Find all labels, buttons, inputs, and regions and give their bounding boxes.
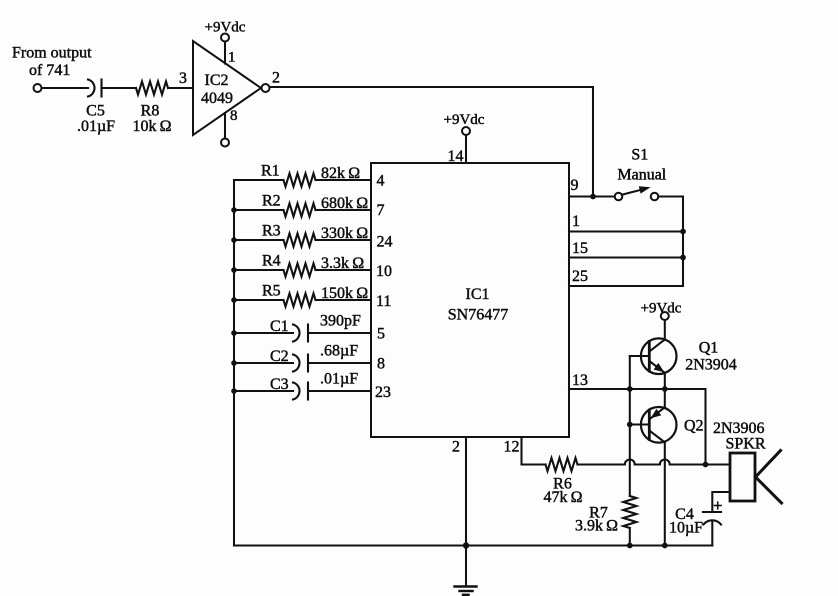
node: Q2 base <box>627 422 633 428</box>
capacitor C4 10uF <box>669 502 721 536</box>
svg-text:23: 23 <box>375 384 391 401</box>
resistor R3 330k to pin 24 <box>234 223 393 251</box>
transistor Q1 2N3904 <box>630 320 737 389</box>
svg-text:15: 15 <box>572 240 588 257</box>
svg-text:of 741: of 741 <box>29 62 70 79</box>
svg-text:10k Ω: 10k Ω <box>132 118 171 135</box>
left bus wire <box>233 180 235 546</box>
svg-text:R1: R1 <box>261 163 280 180</box>
IC1 pin 13 wire <box>569 372 706 465</box>
svg-text:25: 25 <box>572 268 588 285</box>
svg-text:+9Vdc: +9Vdc <box>444 112 485 128</box>
svg-text:150k Ω: 150k Ω <box>321 285 368 302</box>
svg-text:3: 3 <box>179 70 187 87</box>
node: bus-pin1 <box>680 229 686 235</box>
node: IC2 out joins pin 9 <box>590 194 596 200</box>
resistor R7 3.9k <box>575 496 636 546</box>
svg-text:.68µF: .68µF <box>320 343 358 360</box>
svg-text:R2: R2 <box>262 193 281 210</box>
node: bus-pin15 <box>680 255 686 261</box>
wire C4 to bottom rail <box>711 522 713 546</box>
svg-text:13: 13 <box>572 372 588 389</box>
svg-text:11: 11 <box>376 293 391 310</box>
svg-text:2: 2 <box>272 70 280 87</box>
resistor R2 680k to pin 7 <box>234 193 385 220</box>
IC2 pin 8 terminal <box>221 108 238 147</box>
svg-text:R3: R3 <box>262 223 281 240</box>
svg-text:4: 4 <box>377 173 385 190</box>
transistor Q2 2N3906 <box>630 389 765 546</box>
svg-text:330k Ω: 330k Ω <box>321 225 368 242</box>
svg-text:.01µF: .01µF <box>320 371 358 388</box>
svg-text:3.9k Ω: 3.9k Ω <box>575 518 618 535</box>
IC2 pin 1 to +9Vdc <box>225 42 236 66</box>
svg-text:C5: C5 <box>86 103 105 120</box>
svg-text:C2: C2 <box>270 348 289 365</box>
node: bus-C2 <box>231 360 237 366</box>
svg-text:R8: R8 <box>141 103 160 120</box>
IC1 pin 25 wire <box>569 268 683 286</box>
svg-text:14: 14 <box>448 148 464 165</box>
wire speaker lower terminal to C4 <box>712 492 730 512</box>
capacitor C3 .01uF to pin 23 <box>234 371 391 402</box>
svg-text:1: 1 <box>572 213 580 230</box>
svg-text:2N3904: 2N3904 <box>685 357 737 374</box>
bottom rail <box>234 544 712 546</box>
resistor R5 150k to pin 11 <box>234 283 391 311</box>
svg-text:3.3k Ω: 3.3k Ω <box>321 255 364 272</box>
svg-text:R5: R5 <box>262 283 281 300</box>
svg-text:82k Ω: 82k Ω <box>321 165 360 182</box>
svg-text:4049: 4049 <box>201 90 233 107</box>
ground <box>455 587 477 595</box>
svg-text:C1: C1 <box>270 318 289 335</box>
IC1 pin 9 wire <box>569 177 615 197</box>
wire S1 to right bus <box>658 197 683 287</box>
svg-text:IC1: IC1 <box>466 286 490 303</box>
svg-text:24: 24 <box>377 234 393 251</box>
svg-text:8: 8 <box>377 356 385 373</box>
svg-text:2N3906: 2N3906 <box>713 420 765 437</box>
IC1 pin 14 to +9Vdc <box>444 112 485 165</box>
capacitor C5 .01uF <box>77 80 115 136</box>
svg-text:8: 8 <box>230 108 238 124</box>
svg-text:12: 12 <box>504 439 520 456</box>
+9Vdc terminal (Q1) <box>641 301 682 321</box>
svg-text:7: 7 <box>377 202 385 219</box>
node: bus-R2 <box>231 207 237 213</box>
svg-text:S1: S1 <box>631 147 648 164</box>
node: R7 bottom <box>627 543 633 549</box>
svg-text:SPKR: SPKR <box>725 436 765 453</box>
resistor R8 10k <box>132 82 171 136</box>
wire R6 to speaker with hops <box>578 460 731 465</box>
wire C5 to R8 <box>102 87 137 89</box>
svg-text:C3: C3 <box>270 376 289 393</box>
node: Q2 collector bottom <box>662 543 668 549</box>
svg-text:Q1: Q1 <box>699 340 719 357</box>
svg-text:Manual: Manual <box>617 167 666 184</box>
resistor R6 47k <box>543 458 582 506</box>
node: bus-R4 <box>231 267 237 273</box>
node: bus-R5 <box>231 297 237 303</box>
+9Vdc terminal (IC2) <box>205 20 246 42</box>
resistor R1 82k to pin 4 <box>234 163 385 190</box>
svg-text:1: 1 <box>228 50 236 66</box>
wire Q1 base down to R7 <box>629 356 631 496</box>
node: bus-C3 <box>231 388 237 394</box>
svg-text:.01µF: .01µF <box>77 118 115 135</box>
capacitor C1 390pF to pin 5 <box>234 313 385 343</box>
input terminal (from 741) <box>34 84 42 92</box>
wire IC2 output to right bus <box>270 87 594 197</box>
svg-text:R4: R4 <box>262 253 281 270</box>
svg-text:From output: From output <box>12 45 92 62</box>
IC1 pin 1 wire <box>569 213 683 232</box>
speaker SPKR <box>725 436 781 504</box>
svg-text:Q2: Q2 <box>684 418 704 435</box>
pin 3 label <box>179 70 187 87</box>
svg-text:47k Ω: 47k Ω <box>543 489 582 506</box>
IC1 pin 2 wire to ground <box>452 437 466 587</box>
node: base line - pin13 <box>627 386 633 392</box>
svg-text:9: 9 <box>571 177 579 194</box>
svg-text:680k Ω: 680k Ω <box>321 195 368 212</box>
resistor R4 3.3k to pin 10 <box>234 253 392 281</box>
inverter IC2 4049 <box>193 41 261 135</box>
node: pin13 drop joins speaker line <box>703 462 709 468</box>
IC1 pin 15 wire <box>569 240 683 258</box>
IC1 pin 12 wire <box>504 437 546 465</box>
svg-text:IC2: IC2 <box>205 72 229 89</box>
svg-text:+9Vdc: +9Vdc <box>205 20 246 36</box>
svg-text:390pF: 390pF <box>320 313 361 330</box>
wire input to C5 <box>42 87 89 89</box>
svg-text:5: 5 <box>377 326 385 343</box>
label: From output of 741 <box>12 45 92 80</box>
node: bus-C1 <box>231 330 237 336</box>
svg-text:10: 10 <box>376 263 392 280</box>
svg-text:2: 2 <box>452 439 460 456</box>
node: bus-R3 <box>231 237 237 243</box>
inverter output bubble (pin 2) <box>262 84 270 92</box>
node: emitters - pin13 <box>662 386 668 392</box>
IC1 SN76477 body <box>371 163 569 437</box>
switch S1 Manual <box>615 147 667 201</box>
wire R8 to IC2 pin 3 <box>168 87 193 89</box>
capacitor C2 .68uF to pin 8 <box>234 343 385 373</box>
svg-text:+9Vdc: +9Vdc <box>641 301 682 317</box>
svg-text:SN76477: SN76477 <box>448 307 508 324</box>
pin 2 label <box>272 70 280 87</box>
svg-text:10µF: 10µF <box>669 520 703 537</box>
node: ground junction <box>463 542 469 548</box>
